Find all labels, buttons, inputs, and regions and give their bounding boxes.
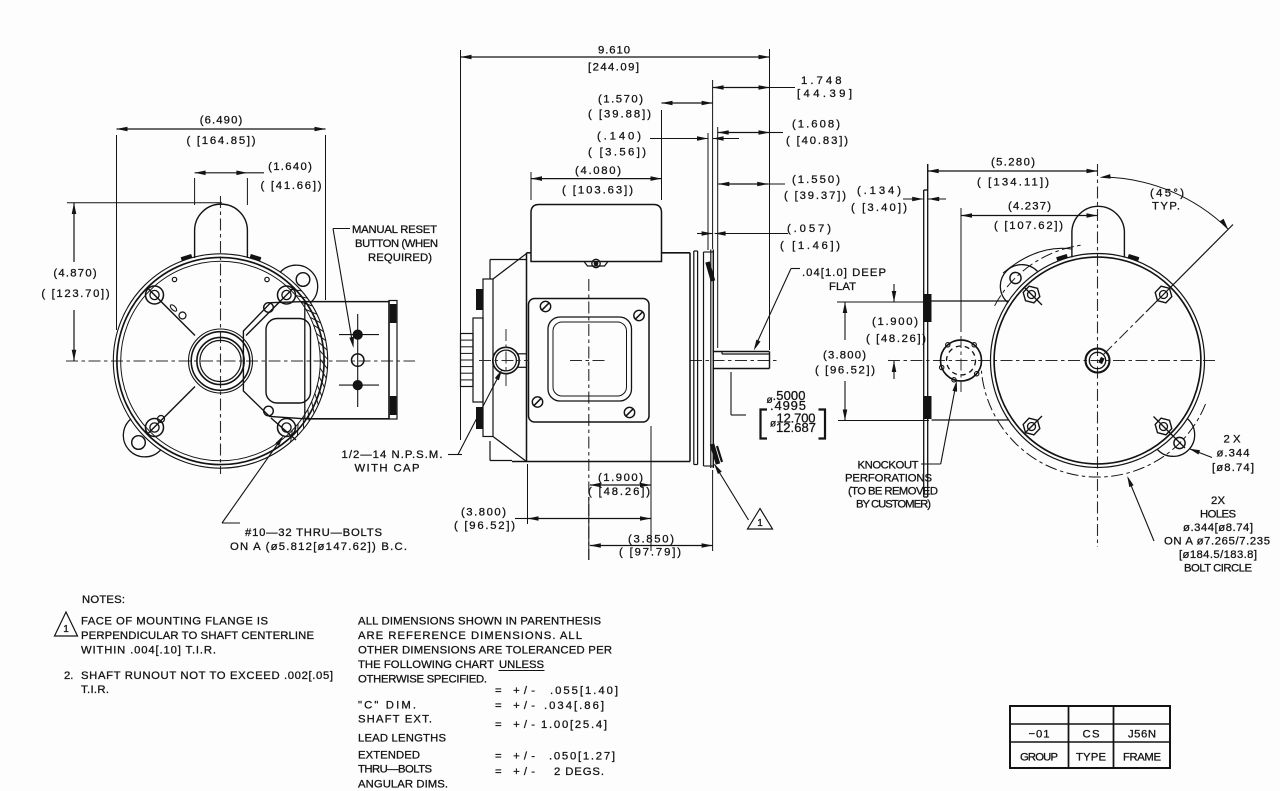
center view ribbed cap [461, 334, 474, 387]
right view shell rings [991, 254, 1205, 468]
svg-text:(4.237): (4.237) [1008, 201, 1051, 213]
flag note 1 triangle [748, 509, 773, 530]
svg-text:ARE REFERENCE DIMENSIONS. AL: ARE REFERENCE DIMENSIONS. ALL [358, 630, 582, 642]
right view hex nuts [1023, 286, 1040, 303]
dimension (1.900) center [590, 484, 651, 486]
right view flange outline arc behind shell [1003, 248, 1072, 273]
svg-text:.055[1.40]: .055[1.40] [550, 685, 618, 697]
dimension (.134) flange thickness [903, 198, 923, 200]
svg-text:2 DEGS.: 2 DEGS. [554, 766, 604, 778]
svg-text:ANGULAR DIMS.: ANGULAR DIMS. [358, 779, 448, 791]
center view vertical centerline [588, 279, 590, 560]
right view shaft hub [1086, 349, 1110, 373]
svg-text:THRU—BOLTS: THRU—BOLTS [358, 764, 432, 776]
right view vertical centerline [1097, 164, 1099, 547]
dimension (1.550) [718, 183, 768, 185]
svg-text:THE FOLLOWING CHART: THE FOLLOWING CHART [358, 659, 494, 671]
dimension (5.280) [927, 164, 929, 190]
right view hat conduit box [1072, 206, 1125, 257]
svg-text:ALL DIMENSIONS SHOWN IN PARENT: ALL DIMENSIONS SHOWN IN PARENTHESIS [358, 616, 601, 628]
left view: motor front view group [66, 196, 415, 474]
center view shaft centerline [690, 360, 779, 362]
dimension (.057) [697, 233, 713, 235]
left view horizontal centerline [66, 360, 415, 362]
dimension (4.870) center height [67, 202, 222, 204]
svg-text:−01: −01 [1029, 729, 1050, 741]
svg-text:(4.870): (4.870) [53, 268, 96, 280]
group/type/frame table [1010, 706, 1170, 768]
left view thru-bolt top-right [278, 286, 296, 304]
svg-text:.034[.86]: .034[.86] [544, 700, 604, 712]
dimension 1.748 shaft extension [712, 80, 714, 249]
svg-text:2X: 2X [1211, 495, 1225, 507]
svg-text:1.00[25.4]: 1.00[25.4] [541, 719, 607, 731]
left view plate screws [264, 303, 274, 313]
center view conduit box [531, 205, 662, 262]
svg-text:HOLES: HOLES [1200, 509, 1236, 521]
svg-text:OTHERWISE SPECIFIED.: OTHERWISE SPECIFIED. [358, 674, 487, 686]
center view end bell plates [473, 318, 483, 402]
extension lines below center view [527, 464, 529, 524]
center view C-face mounting plate [529, 299, 650, 423]
left view vertical centerline [220, 196, 222, 474]
svg-text:1: 1 [63, 624, 69, 635]
svg-text:(3.800): (3.800) [461, 507, 506, 519]
svg-text:BY CUSTOMER): BY CUSTOMER) [856, 499, 931, 511]
left view small vent holes [172, 277, 176, 281]
svg-text:WITH CAP: WITH CAP [355, 463, 420, 475]
svg-text:#10—32 THRU—BOLTS: #10—32 THRU—BOLTS [245, 527, 382, 539]
svg-text:(1.570): (1.570) [598, 94, 643, 106]
svg-text:1/2—14 N.P.S.M.: 1/2—14 N.P.S.M. [342, 449, 443, 461]
svg-text:BUTTON (WHEN: BUTTON (WHEN [355, 238, 438, 250]
right view clip marks [1056, 254, 1068, 261]
svg-text:FACE OF MOUNTING FLANGE IS: FACE OF MOUNTING FLANGE IS [81, 616, 268, 628]
left view mounting ear top-right [280, 265, 318, 303]
svg-text:T.I.R.: T.I.R. [81, 684, 109, 696]
svg-text:(4.080): (4.080) [575, 165, 621, 177]
right view 45deg diagonal centerline [1104, 312, 1147, 355]
center view conduit fitting with cap [493, 347, 519, 373]
svg-text:.04[1.0] DEEP: .04[1.0] DEEP [802, 267, 886, 279]
center view motor body [526, 253, 528, 462]
svg-text:FLAT: FLAT [829, 281, 856, 293]
svg-text:(1.640): (1.640) [268, 161, 312, 173]
dimension (3.850) [590, 545, 713, 547]
svg-text:.050[1.27]: .050[1.27] [549, 751, 615, 763]
svg-text:2.: 2. [64, 670, 73, 682]
svg-text:MANUAL RESET: MANUAL RESET [352, 224, 437, 236]
dimension 9.610 overall length [460, 50, 462, 440]
svg-text:GROUP: GROUP [1020, 752, 1058, 764]
svg-text:UNLESS: UNLESS [499, 659, 544, 671]
svg-text:1: 1 [757, 518, 763, 529]
svg-text:CS: CS [1083, 729, 1100, 741]
left view rim hatch band over box [290, 289, 302, 291]
svg-text:(6.490): (6.490) [200, 115, 243, 127]
center view flange stack at right [693, 251, 695, 465]
svg-text:NOTES:: NOTES: [82, 594, 125, 606]
svg-text:12.687: 12.687 [776, 420, 816, 435]
right view horizontal centerline [888, 360, 1216, 362]
svg-text:(1.550): (1.550) [792, 174, 840, 186]
left view box bolts column [357, 314, 359, 407]
right view body lines to flange [932, 300, 1009, 302]
svg-text:SHAFT RUNOUT NOT TO EXCEED .00: SHAFT RUNOUT NOT TO EXCEED .002[.05] [81, 670, 333, 682]
left view shell clip marks at hat base [181, 254, 193, 261]
dimension (.140) [707, 133, 709, 250]
left view motor shell outer rings [113, 254, 327, 468]
svg-text:WITHIN .004[.10] T.I.R.: WITHIN .004[.10] T.I.R. [81, 645, 216, 657]
svg-text:TYPE: TYPE [1076, 752, 1106, 764]
center view shaft [713, 351, 770, 353]
svg-text:[44.39]: [44.39] [797, 88, 852, 100]
right view knockout fitting [941, 340, 982, 381]
left view conduit box front outline [243, 302, 304, 419]
svg-text:ON A (ø5.812[ø147.62]) B.C.: ON A (ø5.812[ø147.62]) B.C. [230, 541, 407, 553]
svg-text:[244.09]: [244.09] [588, 62, 639, 74]
svg-text:(1.900): (1.900) [598, 472, 643, 484]
left view rib struts [148, 289, 195, 336]
svg-text:ø.344[ø8.74]: ø.344[ø8.74] [1183, 522, 1253, 534]
svg-text:ø.344: ø.344 [1217, 448, 1250, 460]
dimension (45 deg) arc [1103, 177, 1228, 229]
dimension (3.800) right view vertical [844, 302, 846, 340]
right view flange plate edge-on [923, 190, 925, 497]
left view thru-bolt bottom-left [146, 419, 164, 437]
dimension (1.900) right view vertical [837, 301, 929, 303]
svg-text:OTHER DIMENSIONS ARE TOLERANCE: OTHER DIMENSIONS ARE TOLERANCED PER [358, 645, 612, 657]
svg-text:1.748: 1.748 [801, 75, 842, 87]
left view terminal cover rounded plate [266, 319, 311, 404]
left view manual reset button [352, 354, 364, 366]
svg-text:PERPENDICULAR TO SHAFT CENTERL: PERPENDICULAR TO SHAFT CENTERLINE [81, 630, 314, 642]
svg-text:[ø184.5/183.8]: [ø184.5/183.8] [1179, 549, 1257, 561]
svg-text:(3.850): (3.850) [628, 534, 674, 546]
svg-text:BOLT CIRCLE: BOLT CIRCLE [1184, 563, 1252, 575]
svg-text:[ø8.74]: [ø8.74] [1212, 462, 1254, 474]
left view conduit box hat on top [195, 204, 248, 258]
left view mounting ear bottom-left [123, 419, 161, 457]
svg-text:(1.900): (1.900) [872, 316, 918, 328]
svg-text:FRAME: FRAME [1123, 752, 1161, 764]
right view strut lines [1025, 288, 1042, 305]
svg-text:J56N: J56N [1128, 729, 1156, 741]
dimension (1.570) [661, 110, 663, 200]
svg-text:PERFORATIONS: PERFORATIONS [845, 473, 932, 485]
left view conduit box cover plate edge-on [389, 301, 397, 420]
svg-text:"C" DIM.: "C" DIM. [358, 700, 416, 712]
center view plate center cross [570, 360, 608, 362]
right view: motor rear view [888, 164, 1233, 547]
svg-text:LEAD LENGTHS: LEAD LENGTHS [358, 733, 446, 745]
left view thru-bolt bottom-right [278, 419, 296, 437]
center view flange gasket hatch marks [708, 262, 714, 281]
svg-text:ON A ø7.265/7.235: ON A ø7.265/7.235 [1164, 536, 1270, 548]
svg-text:EXTENDED: EXTENDED [358, 750, 420, 762]
center view: motor side view [461, 205, 780, 561]
dimension (4.080) box width [530, 172, 532, 200]
svg-text:(TO BE REMOVED: (TO BE REMOVED [848, 486, 938, 498]
svg-text:9.610: 9.610 [598, 45, 630, 57]
dimension (6.490) overall diameter [116, 135, 118, 330]
svg-text:SHAFT EXT.: SHAFT EXT. [358, 714, 432, 726]
left view thru-bolt top-left [146, 286, 164, 304]
dimension (4.237) [960, 208, 962, 332]
svg-text:(1.608): (1.608) [792, 119, 840, 131]
svg-text:2X: 2X [1224, 434, 1241, 446]
right view mounting ear top-left [1000, 265, 1038, 303]
svg-text:REQUIRED): REQUIRED) [368, 252, 432, 264]
svg-text:KNOCKOUT: KNOCKOUT [858, 460, 919, 472]
dimension (1.640) hat width [194, 178, 196, 205]
svg-text:(3.800): (3.800) [823, 350, 866, 362]
right view bolt circle dash arc [995, 245, 1084, 306]
svg-text:(5.280): (5.280) [991, 157, 1035, 169]
dimension (1.608) [717, 127, 719, 348]
center view plate screws [540, 301, 550, 311]
left view shaft hub rings [189, 329, 253, 393]
right view mounting ear bottom-right [1157, 418, 1195, 456]
dimension (3.800) center [528, 518, 652, 520]
